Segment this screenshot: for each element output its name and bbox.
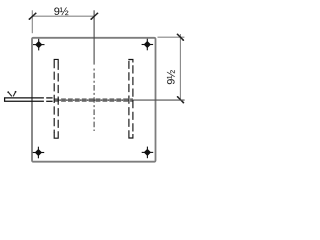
tick right of top dimension — [91, 13, 98, 19]
anchor bolt bottom-left — [33, 147, 45, 159]
left flange slot bottom cap — [54, 133, 58, 139]
left flange left leg dashed — [53, 60, 55, 133]
base plate outline — [32, 38, 156, 162]
tick bottom of right dimension — [177, 97, 183, 103]
right flange slot top cap — [129, 60, 133, 63]
left flange slot top cap — [54, 59, 58, 62]
right flange right leg dashed — [132, 63, 134, 135]
anchor bolt top-left — [33, 39, 45, 51]
right flange slot bottom cap — [129, 132, 133, 139]
right dimension line — [179, 34, 181, 100]
bar left segment (double line with left end cap) — [5, 98, 44, 101]
V mark left stroke — [8, 92, 12, 96]
extension line left (top dimension) — [31, 10, 33, 33]
bar second segment upper — [46, 97, 52, 99]
mid horizontal centerline dots between flanges — [59, 99, 129, 101]
svg-text:9½: 9½ — [166, 70, 178, 85]
mid horizontal centerline solid right part — [133, 99, 185, 101]
anchor bolt bottom-right — [142, 147, 154, 159]
hidden web line lower — [54, 100, 133, 102]
hidden web line upper — [54, 98, 133, 100]
extension line top right (right dimension) — [158, 36, 185, 38]
svg-text:9½: 9½ — [54, 6, 69, 18]
top dimension line — [32, 15, 94, 17]
tick left of top dimension — [29, 13, 36, 19]
left flange right leg dashed — [57, 62, 59, 135]
bar second segment lower — [46, 100, 52, 102]
tick top of right dimension — [177, 34, 183, 40]
anchor bolt top-right — [142, 39, 154, 51]
vertical centerline (solid upper part, also right extension of top dimension) — [93, 10, 95, 64]
right flange left leg dashed — [128, 60, 130, 132]
vertical centerline dash-dot lower part — [93, 69, 95, 132]
V mark right stroke — [13, 92, 15, 97]
